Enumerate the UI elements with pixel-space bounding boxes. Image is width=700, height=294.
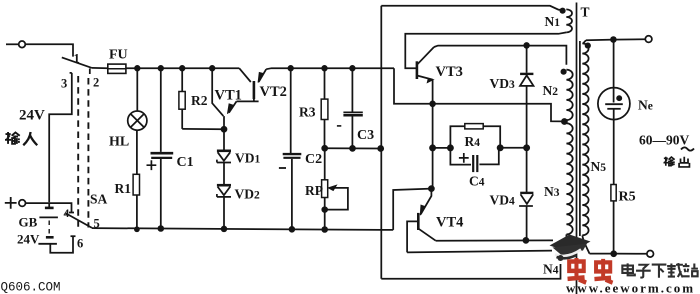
potentiometer RP wiper arrow [325, 188, 348, 210]
transistor VT2 [253, 81, 256, 99]
wire N1 bottom to VT3 base [405, 32, 566, 68]
wire N5 bottom to output [582, 236, 589, 254]
svg-text:24V: 24V [19, 108, 45, 124]
node C2 bottom [290, 227, 295, 232]
svg-text:C3: C3 [357, 128, 374, 143]
SA dashed linkage line right [87, 78, 89, 228]
label shuchu output [664, 157, 675, 166]
neon lamp Ne [613, 40, 615, 103]
capacitor C1 [160, 68, 162, 152]
svg-text:4: 4 [64, 208, 70, 220]
svg-text:VT2: VT2 [260, 84, 287, 100]
label C4 plus sign [459, 153, 469, 163]
svg-text:60—90V: 60—90V [639, 133, 690, 148]
label AC tilde [681, 147, 694, 150]
node C3 top [350, 66, 355, 71]
terminal output bottom [647, 251, 654, 258]
svg-text:FU: FU [109, 48, 128, 63]
wire feedback loop bottom edge [381, 264, 560, 279]
svg-text:N1: N1 [545, 14, 561, 29]
wire battery top lead [48, 203, 50, 208]
svg-text:3: 3 [61, 77, 67, 91]
resistor R5 [611, 185, 616, 201]
wire top rail right segment [266, 68, 394, 69]
wire input top lead [6, 43, 19, 45]
svg-text:R4: R4 [465, 134, 481, 149]
wire R2 bottom to VD1 node [182, 128, 224, 130]
terminal input bottom [19, 200, 26, 207]
node R5 bottom [611, 251, 616, 256]
node R4 C4 left [448, 145, 453, 150]
svg-text:N5: N5 [591, 159, 607, 174]
svg-text:24V: 24V [17, 232, 40, 247]
svg-text:R1: R1 [115, 181, 132, 196]
node RP bottom [322, 227, 327, 232]
node contact 2 tick [89, 69, 91, 75]
label C1 plus sign [147, 160, 157, 170]
diode VD4 [526, 148, 528, 192]
battery GB [45, 207, 54, 210]
svg-text:Ne: Ne [638, 98, 653, 113]
node contact 4 tick [69, 212, 74, 214]
svg-text:C2: C2 [305, 152, 322, 167]
svg-text:C4: C4 [469, 174, 485, 189]
watermark text dianzi xiazaizhan [622, 263, 634, 275]
svg-text:VT4: VT4 [436, 215, 463, 231]
wire contact 2 to fuse [92, 67, 108, 69]
svg-text:SA: SA [90, 192, 108, 207]
svg-text:N4: N4 [543, 262, 559, 277]
watermark chong chong red characters [568, 258, 587, 283]
node VD3 VD4 junction [524, 145, 529, 150]
node VD3 top [524, 43, 529, 48]
node feedback edge [378, 146, 383, 151]
resistor R3 [324, 68, 326, 99]
node HL top [135, 66, 140, 71]
svg-text:N3: N3 [544, 184, 560, 199]
wire VT4 base to N4 [407, 251, 552, 253]
wire input top to contact 1 [25, 44, 73, 56]
node N2 polarity dot [561, 70, 565, 74]
node VD4 bottom [523, 238, 528, 243]
label C2 minus sign [279, 167, 286, 169]
capacitor C4 [450, 148, 471, 165]
svg-text:VD2: VD2 [235, 187, 261, 202]
svg-text:N2: N2 [543, 83, 559, 98]
wire input bottom to contact 4 [26, 203, 72, 212]
diode VD2 zener [217, 184, 231, 187]
svg-text:HL: HL [109, 135, 129, 150]
node contact 6 tick [71, 235, 76, 237]
svg-text:T: T [581, 5, 590, 20]
label shuru input [5, 132, 20, 144]
potentiometer RP [324, 148, 326, 180]
node R2 top [180, 66, 185, 71]
svg-text:VD3: VD3 [490, 76, 516, 91]
node C1 top [159, 66, 164, 71]
label C3 minus sign [337, 125, 341, 127]
node transformer center tap [562, 119, 567, 124]
terminal input top [19, 41, 26, 48]
wire VT4 collector rail [436, 239, 553, 241]
switch SA blade upper (contact 1 to 2) [62, 57, 92, 68]
transformer core line right [579, 41, 581, 236]
svg-text:R5: R5 [619, 190, 636, 205]
transistor VT3 [416, 61, 419, 79]
wire supply rail riser [394, 68, 565, 121]
wire R4 C4 node row [433, 147, 527, 149]
node supply emitter junction [430, 101, 435, 106]
svg-text:RP: RP [305, 183, 323, 198]
node VD2 bottom [222, 227, 227, 232]
node C1 bottom [158, 226, 163, 231]
terminal output top [645, 36, 652, 43]
node R4 C4 right [498, 145, 503, 150]
node VT1 collector [210, 66, 215, 71]
svg-text:VT1: VT1 [215, 88, 242, 104]
svg-text:Q606.COM: Q606.COM [1, 281, 61, 294]
resistor R1 [136, 130, 138, 174]
resistor R2 [181, 68, 183, 91]
svg-text:VT3: VT3 [436, 64, 463, 80]
node C2 top [288, 66, 293, 71]
transformer core line left [576, 3, 578, 294]
wire bottom rail [92, 228, 393, 230]
node RP wiper loop [322, 207, 327, 212]
svg-text:5: 5 [94, 217, 100, 231]
transistor VT1 [212, 68, 223, 116]
fuse FU body [108, 68, 126, 70]
switch SA blade lower (contact 4 to 5) [66, 213, 93, 228]
node VT4 emitter junction [429, 186, 434, 191]
wire VT3 emitter column [432, 80, 434, 189]
winding N2 [566, 70, 572, 120]
SA dashed linkage line left [77, 76, 79, 228]
svg-text:VD1: VD1 [235, 151, 261, 166]
wire battery minus to contact 6 [50, 236, 73, 253]
winding N3 [566, 123, 572, 234]
svg-text:1: 1 [74, 52, 80, 66]
wire feedback loop top edge to N1 [381, 6, 564, 10]
node R1 bottom [135, 227, 139, 231]
svg-text:www.eeworm.com: www.eeworm.com [566, 281, 695, 294]
winding N1 [566, 9, 572, 32]
capacitor C3 [351, 68, 353, 112]
capacitor C2 [290, 68, 292, 153]
wire secondary top to output terminal [586, 39, 645, 40]
wire contact 3 to input plus column [49, 73, 72, 202]
wire R3 C3 node to feedback edge [325, 147, 381, 149]
node Ne top [611, 37, 616, 42]
wire top rail left segment [126, 67, 239, 69]
wire feedback loop left edge [380, 6, 382, 279]
wire output bottom [590, 253, 647, 255]
label plus sign input bottom [5, 197, 17, 209]
diode VD1 zener [223, 129, 225, 150]
wire emitter junction to bottom rail riser [393, 189, 431, 230]
svg-text:R3: R3 [299, 105, 316, 120]
node C3 bottom [350, 146, 355, 151]
node R3 top [322, 66, 327, 71]
transistor VT4 [417, 213, 420, 230]
wire N3 bottom to collector rail [565, 234, 567, 240]
watermark logo graduation cap [550, 235, 591, 253]
svg-text:VD4: VD4 [490, 193, 516, 208]
diode VD3 [526, 45, 528, 72]
svg-text:C1: C1 [177, 155, 194, 170]
lamp HL [136, 68, 138, 111]
node N1 polarity dot [560, 9, 564, 13]
svg-text:R2: R2 [191, 93, 208, 108]
svg-text:2: 2 [93, 76, 99, 90]
node R4 left [430, 145, 435, 150]
wire VT3 collector to N2 top [434, 46, 566, 65]
winding N5 [582, 40, 588, 235]
svg-text:GB: GB [19, 215, 38, 230]
node VD1 top junction [222, 127, 227, 132]
resistor R4 [450, 126, 464, 148]
node N5 polarity dot [586, 43, 590, 47]
svg-text:6: 6 [77, 237, 83, 251]
node R3 bottom [322, 146, 327, 151]
